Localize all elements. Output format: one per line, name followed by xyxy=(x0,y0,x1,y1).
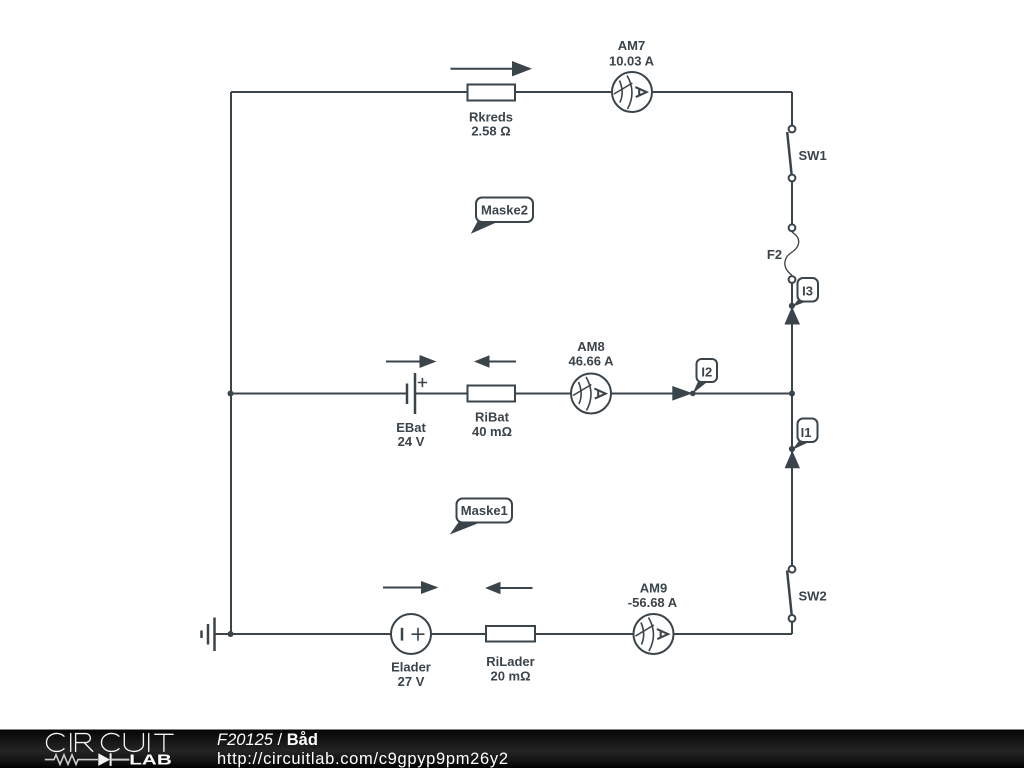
svg-text:2.58 Ω: 2.58 Ω xyxy=(471,124,510,139)
current direction arrow above Rkreds xyxy=(451,61,533,76)
footer bar xyxy=(0,730,1024,768)
svg-text:10.03 A: 10.03 A xyxy=(609,54,655,69)
ammeter AM8 xyxy=(568,339,614,414)
wire right vertical top segment xyxy=(791,92,793,126)
current direction arrow above RiBat (left) xyxy=(474,355,516,368)
current arrow I1 xyxy=(785,451,800,469)
svg-text:RiLader: RiLader xyxy=(486,654,534,669)
current direction arrow above EBat xyxy=(386,355,437,368)
svg-text:AM7: AM7 xyxy=(618,38,645,53)
svg-text:AM8: AM8 xyxy=(577,339,604,354)
ammeter AM9 xyxy=(628,581,678,655)
wire between SW1 and fuse F2 xyxy=(791,181,793,225)
wire right vertical middle segment xyxy=(791,394,793,567)
wire top rail xyxy=(231,91,792,93)
svg-text:EBat: EBat xyxy=(396,420,426,435)
node right middle junction xyxy=(789,391,795,397)
wire bottom rail xyxy=(215,633,792,635)
svg-text:-56.68 A: -56.68 A xyxy=(628,595,678,610)
battery EBat xyxy=(396,373,427,449)
svg-text:46.66 A: 46.66 A xyxy=(568,354,614,369)
current direction arrow above RiLader (left) xyxy=(485,582,533,595)
switch SW1 xyxy=(787,126,826,182)
svg-text:F20125 / Båd: F20125 / Båd xyxy=(217,731,318,749)
fuse F2 xyxy=(767,224,799,282)
svg-text:20 mΩ: 20 mΩ xyxy=(490,669,530,684)
CircuitLab logo wordmark CIRCUIT (thin hand-drawn letters) xyxy=(46,733,173,751)
annotation Maske1 xyxy=(450,499,512,535)
svg-text:Rkreds: Rkreds xyxy=(469,110,513,125)
svg-text:http://circuitlab.com/c9gpyp9p: http://circuitlab.com/c9gpyp9pm26y2 xyxy=(217,750,508,768)
svg-text:I1: I1 xyxy=(801,425,812,440)
svg-text:40 mΩ: 40 mΩ xyxy=(472,424,512,439)
wire middle rail left of battery xyxy=(231,393,406,395)
svg-text:I2: I2 xyxy=(701,364,712,379)
svg-text:LAB: LAB xyxy=(129,753,172,768)
voltage source Elader xyxy=(391,614,431,689)
CircuitLab logo schematic glyph (resistor + diode) xyxy=(45,753,130,766)
node bottom left junction xyxy=(228,631,234,637)
svg-text:SW2: SW2 xyxy=(799,589,827,604)
label I2 xyxy=(690,359,717,396)
wire fuse to middle junction xyxy=(791,283,793,394)
label I1 xyxy=(789,419,818,453)
current arrow I3 xyxy=(784,307,800,325)
svg-text:Maske1: Maske1 xyxy=(461,503,508,518)
svg-text:27 V: 27 V xyxy=(398,674,425,689)
svg-text:Elader: Elader xyxy=(391,660,431,675)
svg-text:SW1: SW1 xyxy=(799,148,827,163)
svg-text:24 V: 24 V xyxy=(398,434,425,449)
current arrow I2 xyxy=(672,386,692,401)
wire left vertical xyxy=(230,92,232,634)
footer title text F20125 / Bad xyxy=(217,731,318,749)
ammeter AM7 xyxy=(609,38,655,112)
resistor Rkreds xyxy=(468,85,516,139)
svg-text:RiBat: RiBat xyxy=(475,410,510,425)
label I3 xyxy=(789,278,818,309)
current direction arrow above Elader xyxy=(383,581,439,594)
footer url text xyxy=(217,750,508,768)
resistor RiBat xyxy=(468,386,516,440)
svg-text:Maske2: Maske2 xyxy=(481,203,528,218)
CircuitLab logo wordmark LAB xyxy=(129,753,172,768)
wire SW2 to bottom rail xyxy=(791,622,793,635)
svg-text:F2: F2 xyxy=(767,247,782,262)
svg-text:I3: I3 xyxy=(802,283,813,298)
svg-text:AM9: AM9 xyxy=(640,581,667,596)
resistor RiLader xyxy=(486,626,535,684)
ground xyxy=(202,618,215,652)
switch SW2 xyxy=(787,566,827,622)
annotation Maske2 xyxy=(471,198,533,234)
node left middle junction xyxy=(228,391,234,397)
wire middle rail right of battery xyxy=(416,393,792,395)
